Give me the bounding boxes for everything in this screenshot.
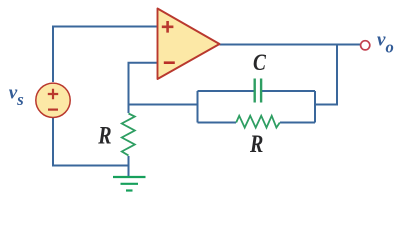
wire RC box top side right of C bbox=[262, 90, 315, 92]
wire RC box left edge bbox=[197, 91, 199, 123]
wire RC box to feedback riser bbox=[315, 45, 337, 105]
wire RC box top side left of C bbox=[198, 90, 255, 92]
wire - input to node A bbox=[129, 63, 158, 105]
ground bbox=[113, 177, 146, 191]
terminal vo bbox=[361, 41, 370, 50]
voltage source vs bbox=[36, 83, 70, 117]
resistor R (vertical, node A to ground) bbox=[122, 114, 135, 156]
svg-text:R: R bbox=[97, 121, 111, 149]
wire node A to RC box bbox=[129, 104, 198, 106]
op-amp U1 bbox=[158, 9, 220, 80]
wire RC box bottom side left of R bbox=[198, 122, 237, 124]
wire vs top to + input bbox=[53, 27, 157, 83]
wire vs bottom to ground node bbox=[53, 118, 130, 166]
resistor R (horizontal, in feedback box) bbox=[236, 116, 280, 128]
wire resistor bottom to ground bbox=[128, 156, 130, 177]
svg-text:vs: vs bbox=[9, 82, 24, 109]
svg-text:C: C bbox=[253, 49, 267, 75]
wire RC box right edge bbox=[314, 91, 316, 123]
wire RC box bottom side right of R bbox=[280, 122, 315, 124]
wire op-amp output to vo terminal bbox=[220, 44, 361, 46]
svg-text:R: R bbox=[249, 130, 263, 158]
wire node A down through resistor to ground bbox=[128, 105, 130, 114]
svg-text:vo: vo bbox=[377, 30, 394, 57]
capacitor C bbox=[255, 79, 261, 103]
